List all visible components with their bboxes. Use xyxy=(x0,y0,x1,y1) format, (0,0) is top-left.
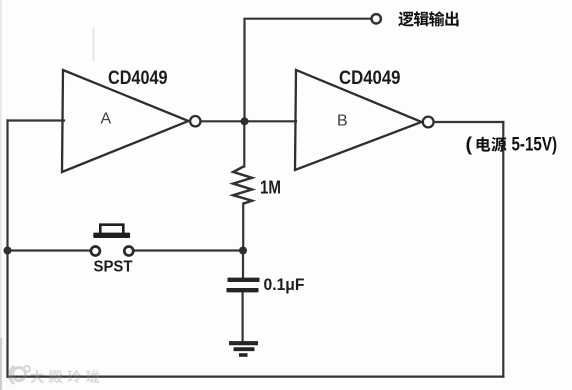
svg-text:SPST: SPST xyxy=(94,259,133,276)
svg-text:CD4049: CD4049 xyxy=(108,68,168,89)
wire: switch row from left rail xyxy=(8,249,91,251)
wire: input to inverter A xyxy=(8,119,65,121)
svg-text:0.1μF: 0.1μF xyxy=(264,275,305,294)
node: junction on left rail at switch row xyxy=(4,247,12,255)
svg-text:CD4049: CD4049 xyxy=(339,68,401,89)
wire: resistor top lead xyxy=(243,121,245,166)
wire: branch up from node to logic output terminal xyxy=(245,19,372,122)
switch S1 SPST pushbutton xyxy=(91,225,133,256)
watermark logo bottom-left xyxy=(10,366,100,384)
node: junction at inverter A output xyxy=(241,117,249,125)
svg-text:A: A xyxy=(101,111,112,128)
wire: capacitor bottom lead to ground xyxy=(242,292,244,342)
wire: A output to B input xyxy=(201,120,297,122)
svg-text:(: ( xyxy=(466,134,473,156)
wire: capacitor top lead xyxy=(242,251,244,278)
capacitor C1 plates xyxy=(227,280,260,290)
scan artifact: faint vertical mark above inverter A xyxy=(93,28,95,61)
wire: switch to RC node xyxy=(134,249,244,251)
resistor R1 zigzag xyxy=(233,167,252,204)
wire: bottom rail xyxy=(8,376,504,378)
wire: inverter B output xyxy=(434,121,504,123)
wire: left feedback rail xyxy=(6,121,8,377)
wire: resistor bottom lead to node xyxy=(242,204,244,251)
svg-text:5-15V): 5-15V) xyxy=(512,134,558,156)
inverter U1B CD4049 xyxy=(295,68,434,170)
wire: right rail from inverter B output down to bottom rail xyxy=(502,122,504,377)
svg-text:1M: 1M xyxy=(260,178,281,198)
node: junction resistor / capacitor / switch xyxy=(239,247,247,255)
terminal: logic output xyxy=(372,14,381,23)
label: power supply (电源 5-15V) xyxy=(466,134,558,156)
svg-text:B: B xyxy=(337,113,348,130)
label: logic output 逻辑输出 xyxy=(398,11,458,26)
inverter U1A CD4049 xyxy=(62,68,201,172)
ground xyxy=(229,343,258,355)
scan artifact: left edge streak xyxy=(0,0,2,390)
